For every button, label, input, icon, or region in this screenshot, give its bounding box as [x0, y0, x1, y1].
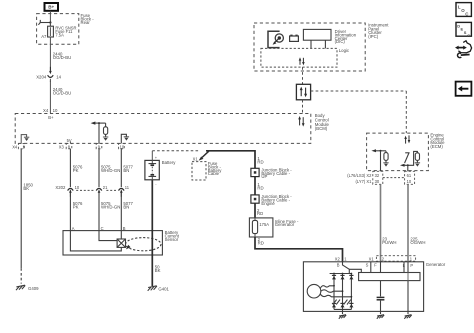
svg-text:(DIC): (DIC)	[335, 39, 346, 44]
L terminal stub	[403, 262, 405, 273]
connector X202 pin 21	[96, 185, 108, 197]
svg-text:X3: X3	[59, 144, 65, 149]
IPC battery icon	[290, 35, 299, 42]
voltage regulator	[359, 273, 420, 281]
wire 225 OG/WH	[408, 184, 425, 261]
sensor current loop ellipse	[126, 238, 161, 251]
fuse block rear box	[37, 13, 95, 44]
svg-text:(LY7) X1: (LY7) X1	[356, 179, 373, 184]
generator wire to regulator	[349, 269, 361, 272]
generator ground center	[339, 309, 346, 318]
BCM internal signal arrow	[91, 122, 106, 144]
svg-text:BK: BK	[23, 186, 29, 191]
svg-text:P: P	[410, 263, 413, 268]
ECM pin wire left	[380, 151, 382, 172]
svg-text:X1: X1	[193, 156, 199, 161]
serial data bus to ECM	[311, 91, 407, 133]
generator pin X2 1	[335, 256, 347, 261]
ECM pin box left 32 30	[373, 171, 383, 184]
svg-text:PK: PK	[73, 168, 79, 173]
svg-text:WH/D-GN: WH/D-GN	[101, 168, 120, 173]
wire B+ to fuse F11	[49, 11, 51, 26]
svg-text:OG/D-BU: OG/D-BU	[53, 91, 71, 96]
module ECM box	[367, 133, 446, 171]
connector X202 pin 11	[119, 185, 130, 197]
rectifier leg 2	[340, 273, 344, 310]
serial data link box	[296, 84, 310, 100]
IPC display	[303, 29, 331, 48]
svg-text:OG/WH: OG/WH	[410, 240, 425, 245]
generator terminal letters	[337, 262, 414, 267]
battery current sensor box	[63, 230, 180, 255]
wire 5076 PK lower	[70, 193, 83, 231]
svg-text:X4: X4	[12, 144, 18, 149]
power symbol B+	[45, 3, 59, 11]
stator phase windings	[320, 285, 352, 298]
svg-text:11: 11	[125, 185, 130, 190]
BCM serial data arrows	[298, 116, 304, 127]
wire 5075 WH/D-GN lower	[99, 193, 120, 231]
BCM pin box X4 9	[12, 143, 26, 149]
icon DESC	[456, 22, 471, 38]
ECM sense arrow	[371, 149, 386, 152]
icon service arrow wrench	[455, 41, 472, 58]
connector X1 fuse block battery cable	[192, 151, 222, 180]
svg-text:G409: G409	[28, 286, 39, 291]
rectifier leg 1	[332, 273, 336, 310]
module IPC box	[254, 23, 389, 71]
svg-text:WH/D-GN: WH/D-GN	[101, 205, 120, 210]
generator ground right	[404, 311, 411, 318]
F terminal wire	[380, 262, 382, 273]
svg-text:32: 32	[375, 173, 380, 178]
svg-text:B+: B+	[48, 115, 54, 120]
wire 1850 BK	[21, 149, 33, 284]
IPC gauge icon	[268, 31, 283, 47]
battery positive cable	[206, 151, 255, 169]
junction block battery cable Engine	[251, 194, 292, 206]
svg-text:B: B	[337, 262, 340, 267]
pin X4 10	[43, 108, 58, 120]
svg-text:(BCM): (BCM)	[315, 126, 328, 131]
svg-text:Generator: Generator	[426, 262, 446, 267]
svg-text:7.5A: 7.5A	[55, 32, 64, 37]
rotor field hash marks	[333, 300, 351, 305]
svg-text:OG/D-BU: OG/D-BU	[53, 55, 71, 60]
svg-text:10: 10	[53, 108, 58, 113]
wire 5075 WH/D-GN upper	[99, 149, 120, 187]
connector X204 pin 14	[36, 67, 61, 82]
connector X202 pin 10	[55, 185, 79, 197]
svg-text:X204: X204	[36, 75, 47, 80]
wire 5077 BN upper	[121, 149, 133, 187]
svg-text:Generator: Generator	[275, 222, 295, 227]
wire 1 RD upper	[257, 156, 263, 164]
svg-text:Sensor: Sensor	[165, 237, 179, 242]
bus tap wire	[38, 20, 51, 25]
sensor element crossed box	[117, 239, 125, 247]
svg-text:Engine: Engine	[261, 201, 275, 206]
svg-text:C: C	[467, 33, 470, 38]
inline fuse generator 175A	[249, 218, 299, 237]
ECM pull resistor right	[415, 153, 420, 167]
generator B+ internal wire	[343, 262, 350, 274]
svg-text:G401: G401	[158, 286, 169, 291]
wire 5077 BN lower	[121, 193, 133, 231]
svg-text:BK: BK	[155, 268, 161, 273]
svg-text:10: 10	[75, 185, 80, 190]
ECM pin row link	[383, 177, 405, 179]
BCM pin box X3 9	[96, 143, 102, 149]
svg-text:10: 10	[407, 179, 412, 184]
ground G401	[148, 286, 170, 292]
wire 2440 OG/D-BU upper	[50, 37, 71, 70]
svg-text:Battery: Battery	[162, 160, 176, 165]
svg-text:14: 14	[56, 75, 61, 80]
svg-text:30: 30	[375, 179, 380, 184]
BCM internal ground pin X4-9	[21, 135, 29, 144]
ECM driver transistor	[400, 151, 417, 166]
svg-text:BN: BN	[123, 168, 129, 173]
wire 2 RD to generator	[255, 237, 343, 262]
svg-text:PU/WH: PU/WH	[382, 240, 396, 245]
P terminal wire	[407, 262, 409, 312]
IPC serial data arrows	[299, 57, 305, 65]
wire 2440 OG/D-BU lower	[50, 81, 71, 114]
stator winding circle	[307, 284, 321, 298]
svg-text:RD: RD	[257, 160, 263, 165]
wire 2 RD upper	[255, 203, 263, 218]
rectifier bottom rail	[334, 308, 351, 310]
svg-text:RD: RD	[257, 211, 263, 216]
svg-text:S: S	[366, 262, 369, 267]
svg-text:BN: BN	[123, 205, 129, 210]
DIC label	[335, 29, 357, 44]
svg-text:X4: X4	[43, 108, 49, 113]
generator box	[303, 262, 445, 312]
ground G409	[16, 285, 39, 291]
svg-text:61: 61	[407, 173, 412, 178]
svg-text:PK: PK	[73, 205, 79, 210]
S terminal stub	[370, 262, 372, 273]
svg-text:UP: UP	[261, 174, 267, 179]
BCM pin box X3 8	[59, 143, 72, 149]
svg-text:10: 10	[120, 144, 125, 149]
ECM serial data arrows	[404, 135, 410, 143]
BCM pin box X3 10	[119, 143, 125, 149]
BCM 5V reference pin X3-8	[67, 138, 72, 144]
svg-text:X2: X2	[335, 256, 341, 261]
connector X202 link wires	[76, 189, 116, 191]
ECM pin box right 61 10	[405, 171, 415, 184]
BCM internal ground pin X3-10	[121, 134, 129, 143]
module BCM box	[15, 113, 329, 143]
capacitor branch	[377, 281, 385, 312]
ECM connector labels	[347, 173, 372, 184]
wire 5076 PK upper	[70, 149, 83, 187]
svg-text:5V: 5V	[67, 138, 72, 143]
generator ground middle	[377, 311, 384, 318]
serial data bus to BCM	[302, 100, 304, 114]
junction block battery cable UP	[251, 167, 292, 179]
battery positive stub	[151, 151, 153, 161]
svg-text:X202: X202	[55, 185, 66, 190]
wire 1 RD lower	[255, 177, 264, 195]
svg-text:21: 21	[103, 185, 108, 190]
svg-text:(ECM): (ECM)	[430, 144, 443, 149]
svg-text:Rear: Rear	[81, 20, 91, 25]
ECM pull resistor left	[383, 151, 388, 167]
BCM internal resistor	[103, 123, 108, 141]
svg-text:(L76/LS3) X2: (L76/LS3) X2	[347, 173, 372, 178]
icon back arrow	[456, 82, 472, 96]
battery cable to X1 dashed	[152, 150, 199, 152]
svg-text:Cable: Cable	[208, 171, 220, 176]
generator connector X1 pin box	[369, 256, 416, 262]
battery	[145, 155, 176, 186]
svg-text:RD: RD	[257, 185, 263, 190]
svg-text:175A: 175A	[259, 222, 269, 227]
svg-text:Logic: Logic	[339, 48, 350, 53]
IPC logic box	[261, 48, 350, 67]
svg-text:A7: A7	[41, 34, 47, 39]
rectifier top rail	[330, 273, 352, 275]
svg-text:X1: X1	[369, 256, 375, 261]
battery negative cable 50 BK	[152, 180, 160, 286]
svg-text:(IPC): (IPC)	[368, 34, 379, 39]
rectifier leg 3	[349, 273, 353, 310]
wire 23 PU/WH	[381, 184, 397, 261]
ECM pin wire right	[407, 165, 409, 171]
svg-text:B+: B+	[48, 5, 54, 10]
svg-text:RD: RD	[258, 241, 264, 246]
icon LOC	[456, 3, 471, 17]
sensor internal wires	[70, 231, 121, 251]
fuse F11 7.5A	[41, 23, 76, 40]
serial data dashed drop	[302, 67, 304, 84]
